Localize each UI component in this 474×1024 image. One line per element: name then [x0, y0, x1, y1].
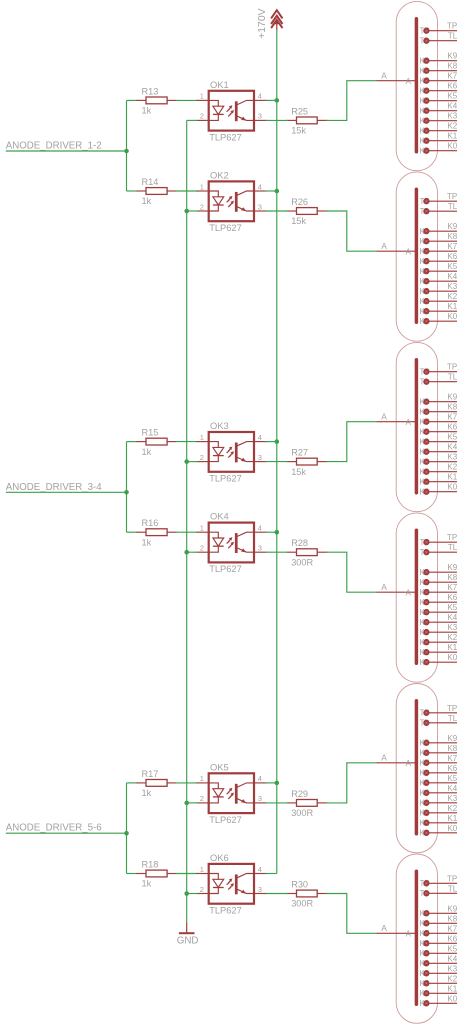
resistor R27 — [287, 458, 328, 465]
pin K5 of tube 4 — [420, 608, 457, 617]
svg-text:4: 4 — [258, 92, 262, 101]
pin K0 of tube 4 — [420, 658, 457, 667]
svg-text:K3: K3 — [447, 112, 457, 121]
pin K9 of tube 3 — [420, 397, 457, 406]
pin K7 of tube 4 — [420, 588, 457, 597]
junction OK3 pin 4 on +170V rail — [275, 439, 280, 444]
svg-text:+170V: +170V — [257, 8, 268, 38]
wire net ANODE_DRIVER_1-2 horizontal — [6, 150, 127, 152]
wire net ANODE_DRIVER_5-6 horizontal — [6, 832, 127, 834]
pin K4 of tube 2 — [420, 277, 457, 286]
opto-coupler OK5 TLP627 — [197, 773, 267, 813]
pin TL of tube 2 — [420, 207, 457, 216]
pin K6 of tube 4 — [420, 598, 457, 607]
pin K9 of tube 2 — [420, 227, 457, 236]
junction OK4 pin 4 on +170V rail — [275, 530, 280, 535]
pin K6 of tube 5 — [420, 769, 457, 778]
pin K9 of tube 4 — [420, 568, 457, 577]
wire R14 to opto pin 1 — [176, 190, 198, 192]
pin K1 of tube 2 — [420, 307, 457, 316]
svg-text:R17: R17 — [142, 769, 159, 779]
wire R25 to tube anode — [326, 81, 376, 121]
pin K3 of tube 4 — [420, 628, 457, 637]
wire R30 to tube anode — [326, 894, 376, 934]
wire OK3 pin 2 to GND rail — [187, 461, 198, 463]
wire OK5 pin 2 to GND rail — [187, 802, 198, 804]
pin K8 of tube 4 — [420, 578, 457, 587]
svg-text:TLP627: TLP627 — [209, 132, 242, 142]
wire OK6 pin 3 to R30 — [266, 893, 288, 895]
svg-text:300R: 300R — [291, 808, 313, 818]
ground GND — [177, 923, 199, 946]
svg-text:A: A — [406, 930, 412, 939]
wire +170V rail vertical — [276, 30, 278, 874]
wire OK6 pin 4 to +170V rail — [266, 873, 277, 875]
pin K4 of tube 6 — [420, 959, 457, 968]
wire OK2 pin 2 to GND rail — [187, 210, 198, 212]
resistor R29 — [287, 800, 328, 807]
svg-text:1k: 1k — [142, 879, 152, 889]
pin K4 of tube 1 — [420, 106, 457, 115]
svg-text:TP: TP — [447, 874, 457, 883]
pin TP of tube 5 — [420, 709, 457, 718]
svg-text:A: A — [406, 589, 412, 598]
svg-text:2: 2 — [200, 794, 204, 803]
pin K8 of tube 5 — [420, 749, 457, 758]
pin K2 of tube 4 — [420, 638, 457, 647]
junction OK2 pin 2 on GND rail — [184, 209, 189, 214]
svg-text:A: A — [406, 759, 412, 768]
svg-text:1: 1 — [200, 433, 204, 442]
svg-text:K5: K5 — [447, 433, 457, 442]
svg-text:OK3: OK3 — [210, 420, 229, 431]
pin K2 of tube 6 — [420, 979, 457, 988]
svg-text:R13: R13 — [142, 86, 159, 96]
pin TL of tube 3 — [420, 377, 457, 386]
pin K3 of tube 6 — [420, 969, 457, 978]
svg-text:2: 2 — [200, 885, 204, 894]
pin K0 of tube 3 — [420, 487, 457, 496]
svg-text:K8: K8 — [447, 62, 457, 71]
svg-text:K2: K2 — [447, 292, 457, 301]
wire net ANODE_DRIVER_3-4 horizontal — [6, 491, 127, 493]
pin TL of tube 6 — [420, 889, 457, 898]
pin K3 of tube 3 — [420, 457, 457, 466]
tube connector 4 — [396, 513, 437, 682]
junction node ANODE_DRIVER_1-2 — [124, 149, 129, 154]
pin K3 of tube 5 — [420, 799, 457, 808]
pin TP of tube 1 — [420, 26, 457, 35]
pin K6 of tube 2 — [420, 257, 457, 266]
svg-text:300R: 300R — [291, 899, 313, 909]
svg-text:TL: TL — [448, 543, 458, 552]
wire R27 to tube anode — [326, 422, 376, 462]
svg-text:K7: K7 — [447, 413, 457, 422]
svg-text:TLP627: TLP627 — [209, 905, 242, 915]
wire OK4 pin 4 to +170V rail — [266, 531, 277, 533]
pin TP of tube 2 — [420, 197, 457, 206]
svg-text:ANODE_DRIVER_3-4: ANODE_DRIVER_3-4 — [6, 482, 102, 493]
wire OK2 pin 4 to +170V rail — [266, 190, 277, 192]
wire OK2 pin 3 to R26 — [266, 210, 288, 212]
resistor R26 — [287, 208, 328, 215]
svg-text:K2: K2 — [447, 633, 457, 642]
svg-text:K0: K0 — [447, 312, 457, 321]
svg-text:3: 3 — [258, 453, 262, 462]
svg-text:R27: R27 — [291, 448, 308, 458]
svg-text:K7: K7 — [447, 242, 457, 251]
anode bar of tube 6 — [415, 871, 419, 1004]
opto-coupler OK4 TLP627 — [197, 523, 267, 563]
pin K0 of tube 2 — [420, 317, 457, 326]
svg-text:K9: K9 — [447, 904, 457, 913]
wire net ANODE_DRIVER_1-2 vertical split — [126, 100, 128, 191]
wire R13 to opto pin 1 — [176, 99, 198, 101]
opto-coupler OK6 TLP627 — [197, 864, 267, 904]
svg-text:K1: K1 — [447, 302, 457, 311]
pin K2 of tube 3 — [420, 467, 457, 476]
svg-text:R28: R28 — [291, 538, 308, 548]
pin K3 of tube 2 — [420, 287, 457, 296]
svg-text:K5: K5 — [447, 944, 457, 953]
pin K4 of tube 3 — [420, 447, 457, 456]
svg-text:4: 4 — [258, 774, 262, 783]
svg-text:K4: K4 — [447, 954, 457, 963]
pin K8 of tube 2 — [420, 237, 457, 246]
svg-text:K9: K9 — [447, 393, 457, 402]
svg-text:K9: K9 — [447, 52, 457, 61]
pin K2 of tube 1 — [420, 126, 457, 135]
pin K0 of tube 5 — [420, 829, 457, 838]
svg-text:1k: 1k — [142, 537, 152, 547]
tube connector 6 — [396, 854, 437, 1023]
pin K6 of tube 6 — [420, 939, 457, 948]
svg-text:K3: K3 — [447, 794, 457, 803]
wire stub to R16 — [127, 531, 138, 533]
tube connector 5 — [396, 684, 437, 853]
pin K1 of tube 3 — [420, 477, 457, 486]
svg-text:1: 1 — [200, 865, 204, 874]
svg-text:K2: K2 — [447, 974, 457, 983]
junction node ANODE_DRIVER_5-6 — [124, 831, 129, 836]
wire GND rail vertical — [186, 120, 188, 923]
pin K9 of tube 1 — [420, 56, 457, 65]
opto-coupler OK2 TLP627 — [197, 181, 267, 221]
svg-text:TL: TL — [448, 373, 458, 382]
wire OK4 pin 2 to GND rail — [187, 551, 198, 553]
anode bar of tube 3 — [415, 360, 419, 493]
svg-text:TL: TL — [448, 714, 458, 723]
pin K4 of tube 5 — [420, 789, 457, 798]
svg-text:K1: K1 — [447, 643, 457, 652]
svg-text:K7: K7 — [447, 72, 457, 81]
svg-text:1: 1 — [200, 182, 204, 191]
svg-text:K1: K1 — [447, 814, 457, 823]
tube connector 1 — [396, 1, 437, 170]
svg-text:TP: TP — [447, 704, 457, 713]
wire OK3 pin 3 to R27 — [266, 461, 288, 463]
svg-text:R18: R18 — [142, 859, 159, 869]
svg-text:K0: K0 — [447, 653, 457, 662]
svg-text:1k: 1k — [142, 196, 152, 206]
svg-text:K3: K3 — [447, 964, 457, 973]
resistor R30 — [287, 890, 328, 897]
svg-text:TL: TL — [448, 202, 458, 211]
svg-text:TP: TP — [447, 192, 457, 201]
svg-text:K2: K2 — [447, 463, 457, 472]
pin K1 of tube 1 — [420, 136, 457, 145]
svg-text:1k: 1k — [142, 106, 152, 116]
svg-text:1k: 1k — [142, 788, 152, 798]
svg-text:15k: 15k — [291, 467, 306, 477]
pin K1 of tube 6 — [420, 989, 457, 998]
svg-text:K8: K8 — [447, 914, 457, 923]
pin TL of tube 1 — [420, 36, 457, 45]
svg-text:K4: K4 — [447, 784, 457, 793]
svg-text:OK5: OK5 — [210, 761, 229, 772]
wire stub to R15 — [127, 441, 138, 443]
svg-text:K1: K1 — [447, 473, 457, 482]
svg-text:TL: TL — [448, 884, 458, 893]
svg-text:3: 3 — [258, 202, 262, 211]
wire R17 to opto pin 1 — [176, 782, 198, 784]
svg-text:K4: K4 — [447, 272, 457, 281]
svg-text:TP: TP — [447, 363, 457, 372]
pin A of tube 4 — [377, 589, 417, 598]
pin K5 of tube 5 — [420, 779, 457, 788]
svg-text:K2: K2 — [447, 804, 457, 813]
pin TP of tube 4 — [420, 538, 457, 547]
svg-text:A: A — [381, 411, 387, 421]
pin A of tube 1 — [377, 77, 417, 86]
anode bar of tube 4 — [415, 530, 419, 663]
svg-text:K3: K3 — [447, 623, 457, 632]
wire OK1 pin 3 to R25 — [266, 119, 288, 121]
pin K7 of tube 5 — [420, 759, 457, 768]
pin TL of tube 5 — [420, 719, 457, 728]
opto-coupler OK3 TLP627 — [197, 432, 267, 472]
svg-text:2: 2 — [200, 202, 204, 211]
pin K3 of tube 1 — [420, 116, 457, 125]
svg-text:2: 2 — [200, 453, 204, 462]
svg-text:OK1: OK1 — [210, 79, 229, 90]
svg-text:K5: K5 — [447, 262, 457, 271]
svg-text:K8: K8 — [447, 744, 457, 753]
svg-text:K0: K0 — [447, 994, 457, 1003]
pin K7 of tube 3 — [420, 417, 457, 426]
svg-text:A: A — [406, 418, 412, 427]
wire R26 to tube anode — [326, 211, 376, 251]
anode bar of tube 2 — [415, 189, 419, 322]
wire stub to R13 — [127, 99, 138, 101]
svg-text:TP: TP — [447, 22, 457, 31]
svg-text:TLP627: TLP627 — [209, 474, 242, 484]
svg-text:2: 2 — [200, 544, 204, 553]
pin K8 of tube 1 — [420, 66, 457, 75]
pin K0 of tube 1 — [420, 146, 457, 155]
resistor R15 — [136, 438, 176, 445]
resistor R14 — [136, 188, 176, 195]
pin K7 of tube 1 — [420, 76, 457, 85]
svg-text:2: 2 — [200, 112, 204, 121]
svg-text:K4: K4 — [447, 443, 457, 452]
junction OK3 pin 2 on GND rail — [184, 459, 189, 464]
pin K6 of tube 3 — [420, 427, 457, 436]
pin K8 of tube 6 — [420, 919, 457, 928]
svg-text:K6: K6 — [447, 252, 457, 261]
wire stub to R17 — [127, 782, 138, 784]
pin K8 of tube 3 — [420, 407, 457, 416]
svg-text:K4: K4 — [447, 613, 457, 622]
svg-text:A: A — [381, 923, 387, 933]
pin K5 of tube 3 — [420, 437, 457, 446]
wire OK3 pin 4 to +170V rail — [266, 441, 277, 443]
junction OK5 pin 4 on +170V rail — [275, 781, 280, 786]
svg-text:ANODE_DRIVER_5-6: ANODE_DRIVER_5-6 — [6, 823, 102, 834]
junction node ANODE_DRIVER_3-4 — [124, 490, 129, 495]
svg-text:K7: K7 — [447, 924, 457, 933]
junction OK5 pin 2 on GND rail — [184, 801, 189, 806]
junction OK6 pin 2 on GND rail — [184, 891, 189, 896]
svg-text:A: A — [406, 248, 412, 257]
svg-text:TLP627: TLP627 — [209, 815, 242, 825]
wire OK1 pin 4 to +170V rail — [266, 99, 277, 101]
svg-text:R14: R14 — [142, 177, 159, 187]
anode bar of tube 5 — [415, 701, 419, 834]
svg-text:TP: TP — [447, 533, 457, 542]
pin A of tube 6 — [377, 930, 417, 939]
resistor R13 — [136, 97, 176, 104]
pin K2 of tube 5 — [420, 809, 457, 818]
anode bar of tube 1 — [415, 19, 419, 152]
svg-text:A: A — [381, 241, 387, 251]
svg-text:R25: R25 — [291, 106, 308, 116]
wire OK5 pin 4 to +170V rail — [266, 782, 277, 784]
svg-text:1k: 1k — [142, 447, 152, 457]
svg-text:R16: R16 — [142, 518, 159, 528]
wire R28 to tube anode — [326, 552, 376, 592]
svg-text:K6: K6 — [447, 82, 457, 91]
pin K1 of tube 4 — [420, 648, 457, 657]
svg-text:K8: K8 — [447, 403, 457, 412]
pin K7 of tube 2 — [420, 247, 457, 256]
svg-text:K6: K6 — [447, 593, 457, 602]
pin K5 of tube 1 — [420, 96, 457, 105]
svg-text:R30: R30 — [291, 879, 308, 889]
svg-text:K1: K1 — [447, 984, 457, 993]
svg-text:TL: TL — [448, 32, 458, 41]
supply symbol +170V — [257, 8, 283, 38]
resistor R28 — [287, 549, 328, 556]
svg-text:K8: K8 — [447, 573, 457, 582]
svg-text:R26: R26 — [291, 197, 308, 207]
tube connector 2 — [396, 172, 437, 341]
svg-text:OK4: OK4 — [210, 511, 229, 522]
svg-text:K9: K9 — [447, 563, 457, 572]
wire R18 to opto pin 1 — [176, 873, 198, 875]
svg-text:3: 3 — [258, 112, 262, 121]
svg-text:K0: K0 — [447, 142, 457, 151]
svg-text:GND: GND — [177, 935, 199, 946]
pin K0 of tube 6 — [420, 999, 457, 1008]
wire net ANODE_DRIVER_3-4 vertical split — [126, 442, 128, 533]
svg-text:K0: K0 — [447, 824, 457, 833]
wire net ANODE_DRIVER_5-6 vertical split — [126, 783, 128, 874]
pin K9 of tube 6 — [420, 909, 457, 918]
svg-text:15k: 15k — [291, 216, 306, 226]
wire stub to R14 — [127, 190, 138, 192]
svg-text:3: 3 — [258, 544, 262, 553]
svg-text:4: 4 — [258, 433, 262, 442]
svg-text:OK6: OK6 — [210, 852, 229, 863]
svg-text:K0: K0 — [447, 483, 457, 492]
svg-text:K2: K2 — [447, 122, 457, 131]
wire OK1 pin 2 to GND rail — [187, 119, 198, 121]
tube connector 3 — [396, 342, 437, 511]
resistor R18 — [136, 870, 176, 877]
pin TP of tube 6 — [420, 879, 457, 888]
svg-text:OK2: OK2 — [210, 169, 229, 180]
svg-text:K8: K8 — [447, 232, 457, 241]
wire OK6 pin 2 to GND rail — [187, 893, 198, 895]
svg-text:K4: K4 — [447, 102, 457, 111]
pin K6 of tube 1 — [420, 86, 457, 95]
svg-text:A: A — [381, 752, 387, 762]
svg-text:K9: K9 — [447, 734, 457, 743]
svg-text:K3: K3 — [447, 282, 457, 291]
junction OK1 pin 4 on +170V rail — [275, 98, 280, 103]
svg-text:1: 1 — [200, 92, 204, 101]
svg-text:4: 4 — [258, 524, 262, 533]
pin K2 of tube 2 — [420, 297, 457, 306]
svg-text:300R: 300R — [291, 557, 313, 567]
pin A of tube 2 — [377, 248, 417, 257]
svg-text:15k: 15k — [291, 126, 306, 136]
svg-text:4: 4 — [258, 865, 262, 874]
svg-text:K6: K6 — [447, 423, 457, 432]
pin K5 of tube 6 — [420, 949, 457, 958]
svg-text:A: A — [406, 77, 412, 86]
pin TL of tube 4 — [420, 548, 457, 557]
svg-text:K6: K6 — [447, 764, 457, 773]
resistor R17 — [136, 780, 176, 787]
wire OK4 pin 3 to R28 — [266, 551, 288, 553]
svg-text:1: 1 — [200, 774, 204, 783]
svg-text:A: A — [381, 70, 387, 80]
svg-text:TLP627: TLP627 — [209, 564, 242, 574]
svg-text:TLP627: TLP627 — [209, 223, 242, 233]
pin K9 of tube 5 — [420, 739, 457, 748]
svg-text:K7: K7 — [447, 754, 457, 763]
svg-text:K5: K5 — [447, 92, 457, 101]
svg-text:R29: R29 — [291, 789, 308, 799]
wire R29 to tube anode — [326, 763, 376, 803]
svg-text:K9: K9 — [447, 222, 457, 231]
svg-text:R15: R15 — [142, 428, 159, 438]
opto-coupler OK1 TLP627 — [197, 91, 267, 131]
wire R16 to opto pin 1 — [176, 531, 198, 533]
svg-text:4: 4 — [258, 182, 262, 191]
svg-text:K7: K7 — [447, 583, 457, 592]
svg-text:ANODE_DRIVER_1-2: ANODE_DRIVER_1-2 — [6, 141, 102, 152]
svg-text:K5: K5 — [447, 603, 457, 612]
wire R15 to opto pin 1 — [176, 441, 198, 443]
svg-text:K6: K6 — [447, 934, 457, 943]
wire OK5 pin 3 to R29 — [266, 802, 288, 804]
pin K7 of tube 6 — [420, 929, 457, 938]
svg-text:A: A — [381, 582, 387, 592]
junction OK4 pin 2 on GND rail — [184, 550, 189, 555]
